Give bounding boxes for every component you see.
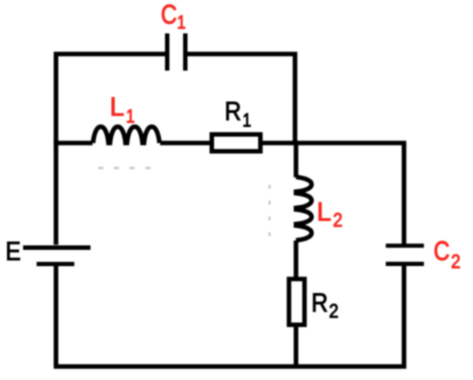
svg-text:R: R xyxy=(225,98,242,126)
svg-text:E: E xyxy=(6,238,21,266)
svg-text:2: 2 xyxy=(333,210,343,231)
resistor R2 xyxy=(289,279,305,325)
wire: top rail left + left vertical down to battery positive xyxy=(56,54,165,245)
wire: left vertical to inductor L1 xyxy=(54,141,93,146)
label L1 xyxy=(110,92,135,127)
svg-text:2: 2 xyxy=(451,251,461,272)
label C2 xyxy=(434,237,461,272)
svg-text:1: 1 xyxy=(243,109,252,131)
wire: L1 to resistor R1 xyxy=(160,141,212,146)
svg-text:C: C xyxy=(434,237,450,266)
label R2 xyxy=(311,290,338,322)
wire: C1 right plate to top-right corner down to node A xyxy=(188,54,296,143)
battery E negative plate (short) xyxy=(37,262,75,266)
svg-text:2: 2 xyxy=(329,301,339,322)
inductor L1 xyxy=(93,127,160,143)
svg-text:L: L xyxy=(110,92,124,122)
svg-text:C: C xyxy=(161,1,177,30)
svg-text:L: L xyxy=(317,196,331,226)
label R1 xyxy=(225,98,252,131)
resistor R1 xyxy=(212,134,261,151)
capacitor C2 xyxy=(386,246,424,264)
dashed current marker under L1 xyxy=(98,167,152,169)
svg-text:1: 1 xyxy=(126,105,135,127)
battery E positive plate (long) xyxy=(23,245,90,250)
capacitor C1 xyxy=(167,33,185,70)
wire: R2 down to bottom rail junction xyxy=(294,327,299,369)
wire: battery negative along bottom rail up to C2 bottom plate xyxy=(56,264,404,367)
inductor L2 xyxy=(296,177,312,240)
svg-text:1: 1 xyxy=(177,11,186,33)
svg-text:R: R xyxy=(311,290,328,318)
wire: L2 to resistor R2 xyxy=(294,241,299,280)
wire: node A down to inductor L2 xyxy=(294,141,299,178)
dashed current marker left of L2 xyxy=(268,185,270,236)
wire: R1 through node A to right corner down to C2 xyxy=(262,143,404,246)
label C1 xyxy=(161,1,186,33)
label L2 xyxy=(317,196,343,230)
